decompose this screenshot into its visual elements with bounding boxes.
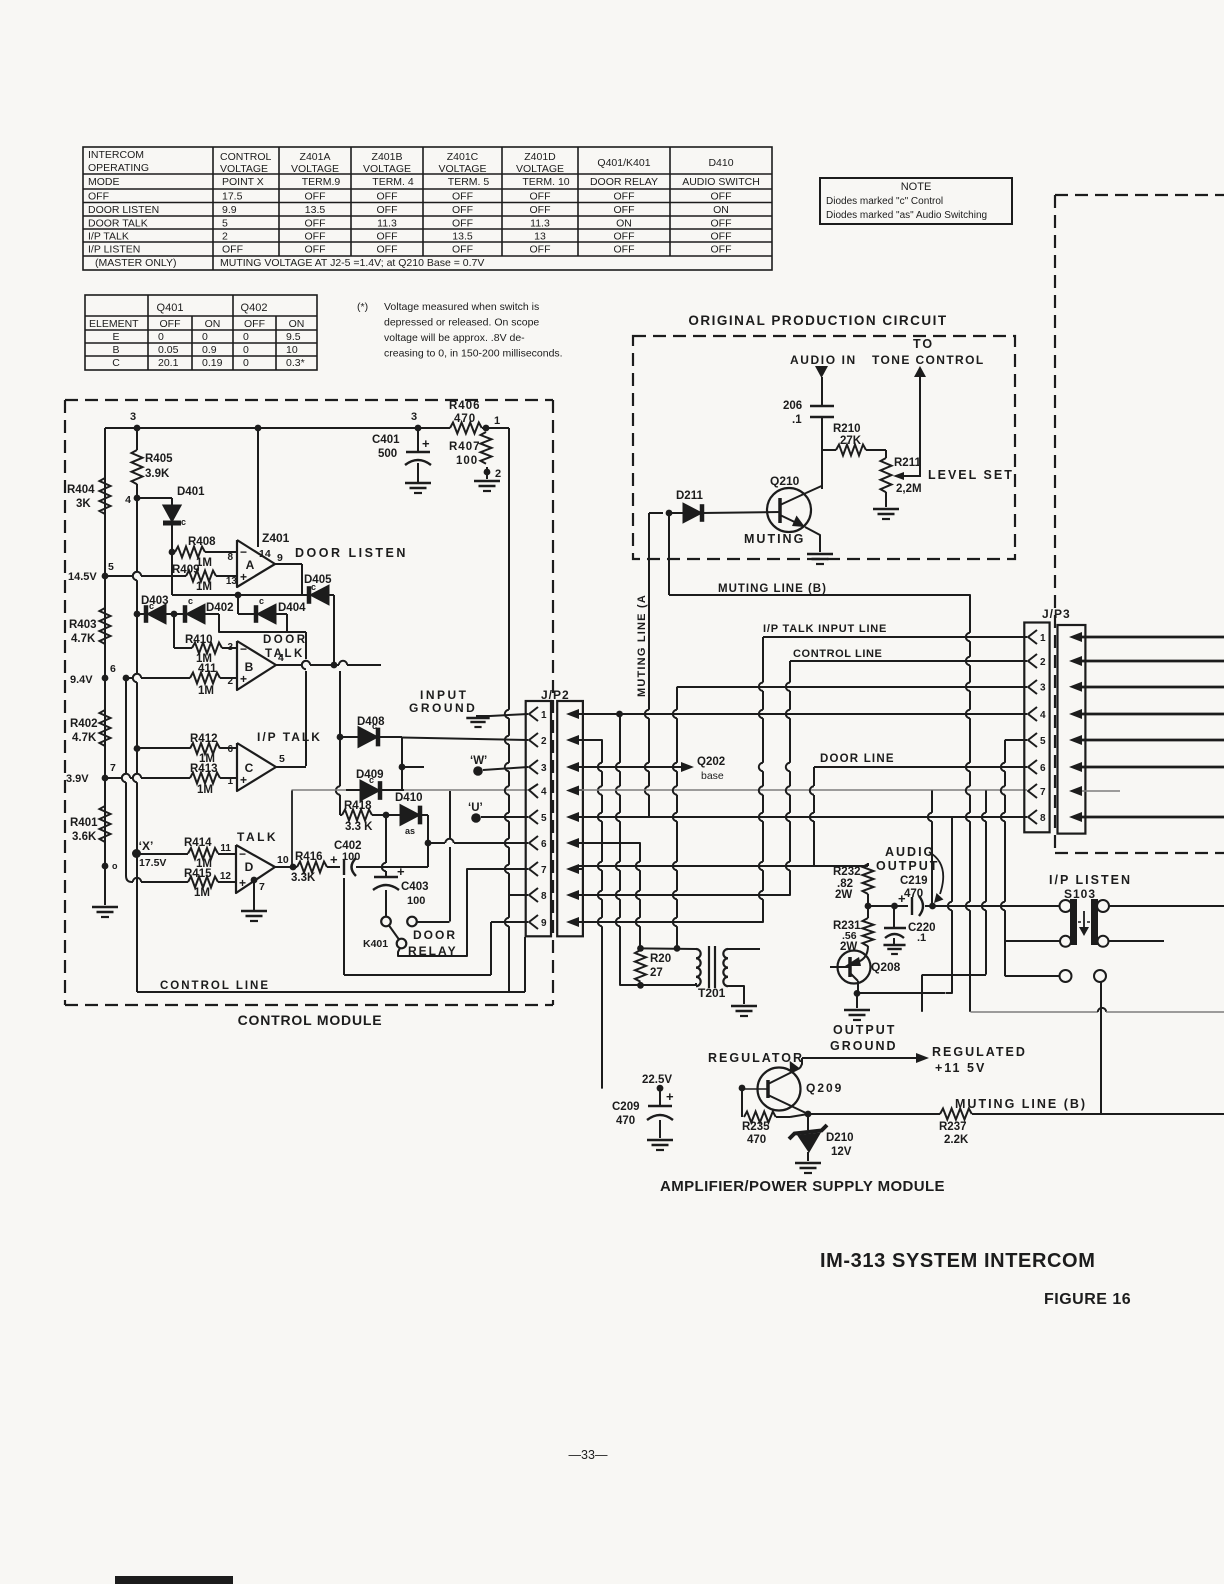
svg-text:creasing to 0, in 150-200 mill: creasing to 0, in 150-200 milliseconds. [384,348,563,360]
wire: relay common rail [449,791,451,839]
wire: C402 to D410 riser [356,866,428,868]
svg-text:8: 8 [541,891,547,902]
resistor R232 .82 2W [867,863,869,864]
resistor R231 .56 2W [867,906,869,918]
connector J/P2 pin 4 chevron [529,784,538,798]
svg-text:R412: R412 [190,733,218,745]
svg-text:Z401A: Z401A [300,151,331,163]
svg-text:R235: R235 [742,1121,770,1133]
note box: diodes marked c and as [820,178,1012,224]
svg-text:5: 5 [1040,736,1046,747]
junction: C219 right node [929,903,936,910]
svg-text:9: 9 [541,918,547,929]
connector J/P3 pin 2 arrow [1069,656,1082,666]
wire: audio vertical from J/P2-4 row [931,791,933,813]
svg-text:‘W’: ‘W’ [470,755,487,767]
svg-text:4.7K: 4.7K [71,633,96,645]
svg-text:2: 2 [495,468,501,480]
svg-text:3.6K: 3.6K [72,831,97,843]
junction: D403 line tap on node4 rail [134,611,141,618]
ground: input ground symbol [476,715,490,717]
svg-text:−: − [240,545,247,559]
wire: muting line A from D211 down to row5 [648,513,650,710]
wire: pin9 line from riser [491,921,528,923]
svg-text:R232: R232 [833,866,861,878]
svg-text:IM-313 SYSTEM INTERCOM: IM-313 SYSTEM INTERCOM [820,1250,1095,1272]
svg-text:I/P TALK: I/P TALK [88,231,129,243]
wire: J/P2-1 row to J/P3-4 [579,713,1027,715]
svg-text:CONTROL LINE: CONTROL LINE [793,648,883,660]
svg-text:3: 3 [227,642,233,653]
svg-text:C403: C403 [401,881,429,893]
svg-text:10: 10 [286,344,298,356]
svg-text:Q208: Q208 [871,960,901,974]
svg-text:INTERCOM: INTERCOM [88,149,144,161]
wire: door line riser x=814 [813,821,815,866]
svg-text:4.7K: 4.7K [72,732,97,744]
svg-text:POINT X: POINT X [222,176,264,188]
wire: R412 from node4 rail [137,747,190,749]
wire: node1 to muting/control trunk corner [486,427,509,429]
junction: R20 top [637,945,644,952]
svg-text:R20: R20 [650,953,671,965]
svg-text:B: B [112,344,119,356]
svg-text:T201: T201 [698,986,726,1000]
switch S103 lower contacts [1060,970,1072,982]
ground for R211 [873,508,899,511]
wire: J/P2-7 row to door line riser and R232 [579,865,814,867]
node X 17.5V [132,849,141,858]
connector J/P2 right shell [557,701,583,936]
connector J/P3 pin 2 chevron [1028,654,1037,668]
ground for C220 [883,944,905,947]
zener diode D210 12V [807,1114,809,1130]
svg-text:206: 206 [783,400,802,412]
svg-text:DOOR TALK: DOOR TALK [88,218,148,230]
resistor R237 2.2K [940,1109,972,1120]
svg-text:7: 7 [110,762,116,774]
svg-text:−: − [239,847,246,861]
table: intercom operating mode voltage table [83,147,772,270]
svg-text:D: D [245,860,254,874]
transformer T201 core [708,946,710,988]
svg-text:Voltage measured when switch i: Voltage measured when switch is [384,301,539,313]
wire: D408 to J/P2 pin2 [402,738,528,741]
svg-text:DOOR: DOOR [413,928,457,942]
wire: J/P2-3 row to Q202 base arrow [579,766,686,768]
svg-text:c: c [369,775,374,785]
wire: input ground to J/P2 pin1 [490,714,528,716]
relay contact circle right [407,917,417,927]
svg-text:AUDIO IN: AUDIO IN [790,353,857,367]
connector J/P2 pin 1 chevron [529,707,538,721]
svg-text:100: 100 [342,851,360,863]
svg-text:CONTROL: CONTROL [220,151,271,163]
svg-text:3.9V: 3.9V [66,773,89,785]
svg-text:(*): (*) [357,301,368,313]
ground for C401 [405,482,431,485]
junction: muting line A lower tap [616,711,623,718]
junction: D408 tap [337,734,344,741]
svg-text:6: 6 [227,744,233,755]
svg-text:5: 5 [108,561,114,573]
svg-text:10: 10 [277,854,289,866]
wire: Q209 emitter to muting node [768,1095,808,1114]
svg-text:D403: D403 [141,595,169,607]
ground for Q210 [807,553,833,556]
resistor R407 100 [481,432,492,464]
svg-text:D410: D410 [708,157,733,169]
svg-text:R418: R418 [344,800,372,812]
junction: Q209 base node [739,1085,746,1092]
svg-text:17.5V: 17.5V [139,857,166,869]
svg-text:o: o [112,861,118,871]
svg-text:CONTROL MODULE: CONTROL MODULE [238,1012,383,1028]
transistor Q210 muting [767,488,811,532]
svg-text:Z401: Z401 [262,531,290,545]
svg-text:AUDIO SWITCH: AUDIO SWITCH [682,176,760,188]
wire: riser x=951.5 up to U row [946,987,952,993]
svg-text:12: 12 [220,871,232,882]
junction on 9.4V line [123,675,130,682]
junction: R418 right end [383,812,390,819]
wire: R210 to R211 [885,450,887,458]
svg-text:13.5: 13.5 [305,204,326,216]
svg-text:TERM. 4: TERM. 4 [372,176,414,188]
op-amp Z401-D talk [236,845,275,893]
wire: J/P3-5 common riser to switch [1004,740,1006,763]
svg-text:470: 470 [454,413,476,425]
svg-text:+: + [666,1089,674,1104]
connector J/P2 pin 2 arrow [566,735,579,745]
ground for R407 [474,480,500,483]
wire: J/P3-3 row [677,686,1027,688]
svg-text:OFF: OFF [614,191,635,203]
diode D401 control [163,505,182,522]
svg-text:depressed or released. On sco: depressed or released. On scope [384,317,539,329]
svg-text:3: 3 [130,411,136,423]
svg-text:CONTROL LINE: CONTROL LINE [160,980,270,992]
svg-text:(MASTER ONLY): (MASTER ONLY) [95,257,176,269]
svg-text:1: 1 [541,710,547,721]
node U [471,813,481,823]
svg-text:4: 4 [541,787,547,798]
svg-text:Z401C: Z401C [447,151,479,163]
svg-text:2: 2 [227,676,233,687]
svg-text:OFF: OFF [452,191,473,203]
wire: lower rail from C402 plate [343,878,345,975]
wire: +V bus node 3 line [105,427,418,429]
connector J/P3 pin 6 arrow [1069,762,1082,772]
svg-text:500: 500 [378,448,397,460]
resistor R411 1M [190,673,220,684]
svg-text:6: 6 [541,839,547,850]
svg-text:0: 0 [243,331,249,343]
diode D402 control [174,613,185,615]
svg-text:1: 1 [1040,633,1046,644]
svg-text:MUTING LINE (A: MUTING LINE (A [636,594,648,697]
svg-text:OFF: OFF [614,204,635,216]
svg-text:R237: R237 [939,1121,967,1133]
wire: control line to connector base [506,991,525,993]
transistor Q208 [838,951,871,984]
svg-text:5: 5 [541,813,547,824]
svg-text:2W: 2W [835,889,852,901]
svg-text:Q401/K401: Q401/K401 [597,157,650,169]
svg-text:MUTING: MUTING [744,532,805,546]
transformer T201 secondary winding [723,949,728,958]
connector J/P2 pin 8 chevron [529,888,538,902]
resistor R403 4.7K [100,608,111,644]
diode D408 control [340,736,358,738]
relay arm [389,926,399,940]
wire: control riser x=790 up [784,889,790,895]
wire: J/P2-2 row turn down [579,739,596,741]
potentiometer R211 2.2M level set [881,458,892,492]
svg-text:Diodes marked "c" Control: Diodes marked "c" Control [826,196,943,207]
svg-text:3.3 K: 3.3 K [345,821,373,833]
wire: A output to D405 line [275,563,302,565]
svg-text:D211: D211 [676,490,703,502]
svg-text:ON: ON [205,318,221,330]
svg-text:+: + [240,672,247,686]
op-amp C I/P talk [237,743,276,791]
connector J/P2 pin 3 arrow [566,762,579,772]
svg-text:ORIGINAL PRODUCTION CIRCUIT: ORIGINAL PRODUCTION CIRCUIT [688,313,947,328]
wire: U to J/P2 pin5 [481,816,528,818]
wire: Q208 emitter to output ground [856,993,858,1008]
wire: left voltage divider rail [104,428,106,576]
connector J/P2 pin 3 chevron [529,760,538,774]
svg-text:S103: S103 [1064,887,1096,901]
svg-text:E: E [112,331,119,343]
connector J/P3 pin 7 arrow [1069,786,1082,796]
svg-text:+: + [898,891,906,906]
svg-text:OFF: OFF [452,218,473,230]
junction: D401 cathode to R408 [169,549,176,556]
svg-text:OFF: OFF [452,244,473,256]
connector J/P3 pin 3 chevron [1028,680,1037,694]
svg-text:1M: 1M [196,581,212,593]
svg-text:R211: R211 [894,457,921,469]
wire: muting line B faint continuation to page edge [971,1011,1099,1013]
svg-text:R416: R416 [295,851,323,863]
resistor R408 1M [172,551,175,553]
wire: control line row to J/P3-2 [790,660,1027,662]
ground for T201 secondary [731,1005,757,1008]
wire: node4 to D401 [137,497,172,499]
wire: J/P3-5 short row [1005,739,1027,741]
svg-text:1M: 1M [194,887,210,899]
svg-text:TONE CONTROL: TONE CONTROL [872,353,985,367]
svg-text:base: base [701,770,724,782]
svg-text:—33—: —33— [569,1448,608,1462]
svg-text:14: 14 [259,548,271,560]
svg-text:6: 6 [1040,763,1046,774]
wire: 9.4V feed down to R415 [125,678,127,774]
svg-text:0.05: 0.05 [158,344,179,356]
svg-text:2: 2 [541,736,547,747]
svg-text:13.5: 13.5 [452,231,473,243]
wire: lower right contact stub [1109,940,1165,942]
wire: door talk op-amp feed from D402 junction [173,614,175,648]
svg-text:Q209: Q209 [806,1081,843,1095]
wire: audio row to S103 [946,905,1060,907]
wire: primary bottom [620,984,697,986]
wire: audio tap from op-amp D output [291,791,293,868]
svg-text:8: 8 [227,552,233,563]
ground output ground [844,1009,870,1012]
svg-text:OFF: OFF [452,204,473,216]
svg-text:470: 470 [616,1115,635,1127]
wire: D410 junction to J/P2 pin6 with hop [428,842,445,844]
relay K401 left contact [381,917,391,927]
connector J/P3 pin 1 arrow [1069,632,1082,642]
resistor R412 1M [190,743,220,754]
connector J/P2 pin 9 arrow [566,917,579,927]
node 3 junction at left [134,425,141,432]
svg-text:OFF: OFF [614,231,635,243]
wire: I/P talk riser x=763 [757,916,763,922]
diode D404 control [238,613,256,615]
svg-text:DOOR RELAY: DOOR RELAY [590,176,658,188]
svg-text:Q402: Q402 [241,302,268,314]
wire: I/P talk output rise to detour [287,631,306,633]
svg-text:0: 0 [158,331,164,343]
svg-text:OFF: OFF [305,231,326,243]
svg-text:C219: C219 [900,875,928,887]
wire: Q210 emitter to ground [805,527,820,552]
svg-text:+11 5V: +11 5V [935,1061,986,1075]
wire: Q210 collector riser [821,450,823,489]
svg-text:TERM. 10: TERM. 10 [522,176,569,188]
junction: Q208 emitter node [854,990,861,997]
svg-text:0: 0 [202,331,208,343]
svg-text:ELEMENT: ELEMENT [89,318,139,330]
svg-text:‘X’: ‘X’ [139,839,154,853]
wire: R418 rail down through hop to C403 [385,815,387,863]
bottom left printing artifact bar [115,1576,233,1584]
svg-text:c: c [372,721,377,731]
svg-text:DOOR LINE: DOOR LINE [820,753,895,765]
svg-text:ON: ON [616,218,632,230]
wire: D405 cathode down to door talk output line [333,595,335,665]
wire: W to J/P2 pin3 [483,767,528,770]
svg-text:7: 7 [259,881,265,893]
svg-text:D404: D404 [278,602,306,614]
svg-text:DOOR LISTEN: DOOR LISTEN [88,204,159,216]
wire: D401 junction down to DOOR LISTEN output line [171,552,173,595]
svg-text:voltage will be approx. .8V d: voltage will be approx. .8V de- [384,332,525,344]
junction: Q209 emitter / D210 node [805,1111,812,1118]
svg-text:11.3: 11.3 [530,218,550,230]
svg-text:+: + [240,773,247,787]
wire: op-amp 14 supply from bus [257,428,259,547]
junction: T201 primary top from x=677 trunk [674,945,681,952]
svg-text:13: 13 [226,576,238,587]
svg-text:Diodes marked "as" Audio Switc: Diodes marked "as" Audio Switching [826,210,987,221]
svg-text:100: 100 [456,455,478,467]
connector J/P3 pin 5 chevron [1028,733,1037,747]
wire: door relay lower rail riser to pin9 [490,922,492,975]
svg-text:Z401D: Z401D [524,151,556,163]
svg-text:7: 7 [541,865,547,876]
svg-text:‘U’: ‘U’ [468,802,483,814]
wire: J/P2-9 row to I/P talk riser [579,921,757,923]
svg-text:8: 8 [1040,813,1046,824]
svg-text:3K: 3K [76,498,91,510]
resistor R413 1M [190,773,220,784]
wire: S103 lower right to muting line B riser [1100,982,1102,1114]
svg-text:OFF: OFF [244,318,265,330]
svg-text:ON: ON [713,204,729,216]
node 3 junction at C401 [415,425,422,432]
svg-text:R408: R408 [188,536,216,548]
svg-text:I/P LISTEN: I/P LISTEN [1049,873,1132,887]
svg-text:R410: R410 [185,634,213,646]
audio output node row [868,905,889,907]
wire: B output line [276,664,302,666]
svg-text:J/P3: J/P3 [1042,607,1071,621]
resistor R402 4.7K [100,710,111,746]
dashed box: control module boundary [65,400,553,1005]
svg-text:MODE: MODE [88,176,120,188]
svg-text:2: 2 [222,231,228,243]
svg-text:OFF: OFF [377,244,398,256]
node 5 14.5V [102,573,109,580]
svg-text:NOTE: NOTE [901,181,932,193]
svg-text:3: 3 [411,411,417,423]
wire: muting line B horizontal [669,594,964,596]
svg-text:27K: 27K [840,435,862,447]
svg-text:9.5: 9.5 [286,331,301,343]
svg-text:20.1: 20.1 [158,357,179,369]
svg-text:1: 1 [494,415,500,427]
svg-text:+: + [239,876,246,890]
svg-text:C: C [112,357,120,369]
diode D211 [669,512,683,514]
svg-text:11: 11 [220,843,231,854]
svg-text:4: 4 [125,494,131,506]
svg-text:R406: R406 [449,400,481,412]
wire: muting line B bottom from node to R237 [808,1113,940,1115]
svg-text:Q210: Q210 [770,474,800,488]
svg-text:OFF: OFF [711,244,732,256]
junction: C220 tap [891,903,898,910]
svg-text:5: 5 [222,218,228,230]
wire: lower rail to amplifier module [344,974,491,976]
node 2 junction [484,469,491,476]
wire: secondary bottom lead to ground [728,986,744,1004]
switch S103 actuator arrow [1083,911,1085,930]
svg-text:R409: R409 [172,564,200,576]
switch S103 upper section lower contacts [1060,936,1071,947]
svg-text:9.9: 9.9 [222,204,237,216]
wire: J/P2-5 row ('U') to J/P3-8 [579,816,1027,818]
svg-text:22.5V: 22.5V [642,1074,672,1086]
wire: jog to faint muting row [922,974,986,976]
junction: D410 line to pin6 [425,840,432,847]
wire: J/P2-4 audio row faint to J/P3-7 [579,789,1027,791]
svg-text:6: 6 [110,663,116,675]
wire: secondary top lead [728,948,760,950]
svg-text:Q202: Q202 [697,756,725,768]
connector J/P3 pin 8 arrow [1069,812,1082,822]
resistor R406 470 [450,423,482,434]
svg-text:470: 470 [747,1134,766,1146]
wire: R20 bottom corner [619,979,621,985]
svg-text:OFF: OFF [530,204,551,216]
